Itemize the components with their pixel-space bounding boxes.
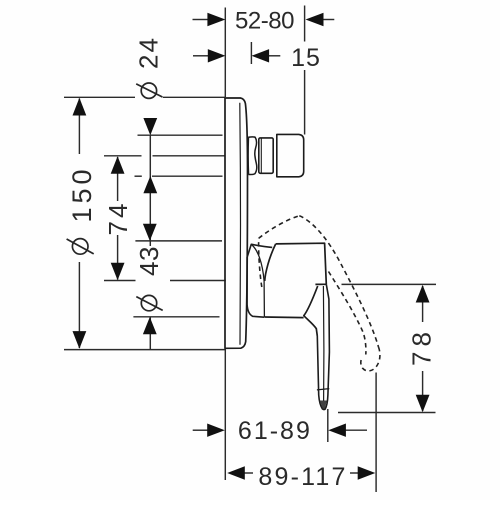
escutcheon plate outline <box>225 98 248 348</box>
svg-text:61-89: 61-89 <box>238 417 312 445</box>
dashed lever rear edge <box>259 238 262 287</box>
extension line wall face top (x=225) <box>224 8 226 98</box>
extension line handle axis (y=280.5) <box>104 280 136 282</box>
arrowheads <box>73 13 430 480</box>
dashed lever inner edge <box>329 272 366 355</box>
extension line hub bottom (y=316.8) <box>133 316 219 318</box>
extension line plate top (y=97) <box>64 96 135 98</box>
knob collar <box>259 138 273 173</box>
extension line plate front (15 dim) <box>250 42 252 64</box>
lever cross tick <box>317 389 329 390</box>
arrow 15 right <box>252 49 270 62</box>
arrow 74 top <box>111 156 125 174</box>
arrow Ø24 bottom <box>143 176 157 193</box>
arrow Ø150 bottom <box>73 331 87 349</box>
svg-text:43: 43 <box>134 246 164 276</box>
extension line knob end (x=304.6) <box>304 6 306 42</box>
extension line dashed-lever tip (x=376.1) <box>375 373 377 493</box>
dashed lever (raised position) <box>259 216 380 371</box>
handle body <box>264 243 326 336</box>
dashed lever outer edge <box>299 216 378 347</box>
arrow Ø43 bottom <box>143 317 157 334</box>
dashed lever tip arc <box>361 347 380 371</box>
dimension 89-117 line stubs <box>244 472 254 474</box>
arrow 78 bottom <box>416 395 430 413</box>
arrow 78 top <box>416 285 430 303</box>
arrow Ø24 top <box>143 118 157 135</box>
extension line knob top (y=135.2) <box>138 134 223 136</box>
arrow 74 bottom <box>111 263 125 281</box>
svg-text:78: 78 <box>407 327 437 366</box>
extension line lever step (y=284.4) <box>342 283 437 285</box>
plate inner face line <box>239 103 242 345</box>
svg-text:24: 24 <box>134 36 164 69</box>
extension line wall face bottom continuation <box>224 349 226 481</box>
handle lever blade <box>317 284 330 409</box>
arrow Ø43 top <box>143 224 157 241</box>
dimension line Ø24 / Ø43 stack (x=150.3) <box>149 135 151 246</box>
dimension line 74 (x=117.6) <box>117 157 119 201</box>
dashed lever top edge <box>259 216 300 239</box>
dimension 61-89 leader lines <box>193 429 208 431</box>
svg-text:52-80: 52-80 <box>235 8 294 35</box>
dimension 52-80 leader lines <box>193 19 209 21</box>
svg-text:150: 150 <box>67 165 97 222</box>
handle hub <box>247 244 272 317</box>
svg-text:89-117: 89-117 <box>258 463 347 491</box>
arrow 15 left <box>208 49 226 62</box>
dimension line 78 (x=422.6) <box>422 286 424 322</box>
extension line solid lever tip (x=327.8) <box>327 409 329 442</box>
extension line knob bottom (y=176.2) <box>135 175 142 177</box>
dimension line Ø150 (x=79.4) <box>78 99 80 155</box>
arrow 52-80 right <box>306 13 324 26</box>
svg-text:74: 74 <box>103 201 133 236</box>
arrow 61-89 right <box>328 424 346 437</box>
extension line plate bottom (y=349.6) <box>64 349 225 351</box>
diameter symbol for 43 <box>136 295 162 310</box>
lever tip dark fill <box>320 401 327 410</box>
arrow 52-80 left <box>207 13 225 26</box>
arrow Ø150 top <box>73 98 87 116</box>
knob body <box>277 134 304 176</box>
extension line knob axis (y=155.8) <box>104 155 142 157</box>
arrow 61-89 left <box>207 424 225 437</box>
diameter symbol for 150 <box>67 239 94 255</box>
arrow 89-117 left <box>227 466 245 479</box>
dimension 15 leader lines <box>193 55 209 57</box>
extension line lever tip down (y=412.5) <box>338 412 436 414</box>
extension line hub top (y=240.9) <box>135 240 222 242</box>
diameter symbol for 24 <box>136 83 162 98</box>
arrow 89-117 right <box>358 466 376 479</box>
svg-text:15: 15 <box>291 44 321 72</box>
knob neck <box>248 137 257 175</box>
